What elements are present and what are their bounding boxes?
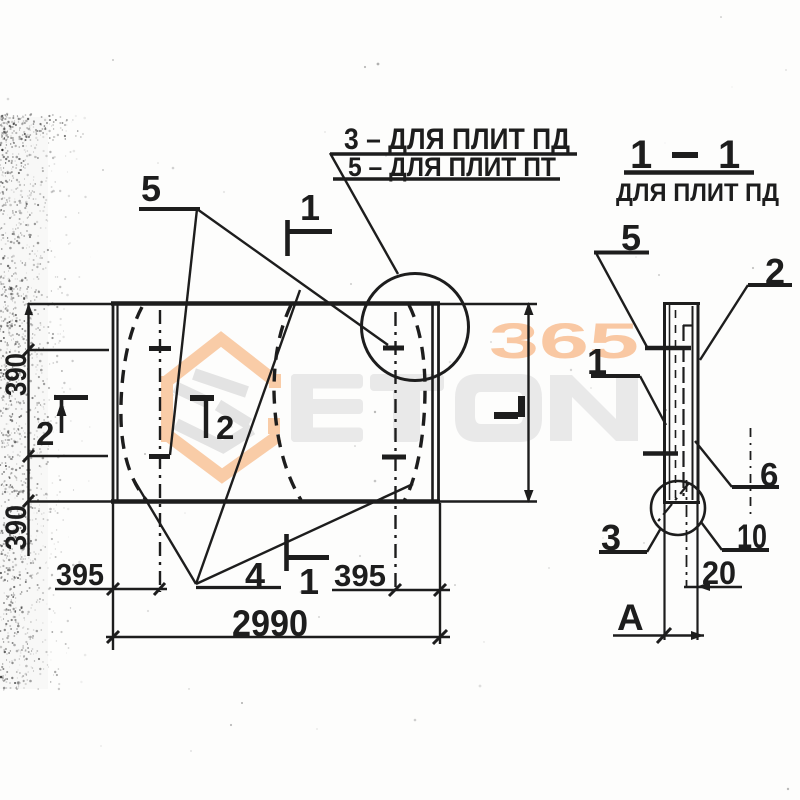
- section label 10 underline: [722, 548, 769, 552]
- section right edge extension down: [696, 504, 698, 640]
- right edge extension below plan: [439, 503, 441, 644]
- watermark logo hexagon chevron top (peach): [166, 339, 276, 382]
- watermark logo gray chevron band 4: [176, 424, 252, 447]
- annotation underline 2: [333, 177, 560, 180]
- section view: inner vertical line: [682, 325, 684, 496]
- section anchor tick lower: [643, 451, 678, 456]
- watermark letter N: [550, 375, 638, 441]
- svg-text:1: 1: [630, 133, 652, 177]
- dimension line 2990: [106, 636, 450, 639]
- svg-text:6: 6: [760, 456, 778, 493]
- section label 6 leader: [695, 441, 732, 487]
- section view: right outer wall: [697, 302, 700, 504]
- watermark logo gray chevron band 2: [175, 387, 207, 402]
- watermark letter O: [455, 374, 542, 442]
- dimension line A: [613, 634, 704, 637]
- svg-text:365: 365: [489, 313, 639, 369]
- section marker 2 left: stem: [60, 400, 64, 433]
- section view: inner top jog: [683, 324, 692, 326]
- svg-text:5 – ДЛЯ ПЛИТ ПТ: 5 – ДЛЯ ПЛИТ ПТ: [348, 152, 556, 182]
- dimension line 395 left: [55, 588, 167, 591]
- left dimension line y456: [28, 455, 108, 457]
- section marker 1 lower: flag bar: [287, 555, 329, 560]
- label 4 leader to middle-left arc: [196, 290, 300, 584]
- plan top edge (plate outline): [111, 301, 440, 306]
- section label 3 underline: [599, 550, 647, 554]
- middle-left dashed arc (PT plate contour): [274, 305, 301, 500]
- watermark letter E: [291, 374, 363, 442]
- watermark logo gray chevron band 3: [218, 405, 249, 424]
- plan bottom edge right extension to L line: [440, 500, 537, 502]
- section marker 2 left: arrowhead: [57, 401, 67, 416]
- section label 2 underline: [748, 283, 792, 287]
- plan left edge inner line: [116, 303, 118, 502]
- section view: right inner wall: [692, 306, 694, 500]
- svg-text:1: 1: [300, 187, 320, 228]
- section marker 2 inner: stem: [204, 398, 208, 438]
- plan right edge inner line: [431, 303, 434, 502]
- watermark logo left side bar (peach): [161, 376, 173, 442]
- svg-text:10: 10: [737, 518, 767, 556]
- L letter (rotated) stem: [518, 396, 525, 417]
- plan bottom edge (plate outline): [111, 499, 440, 504]
- plan top edge right extension to L line: [440, 303, 537, 306]
- svg-text:5: 5: [141, 168, 161, 209]
- left near-edge dashed arc (contour): [121, 307, 147, 501]
- label 5 leader to detail tick: [197, 209, 388, 345]
- section view: bottom cap: [663, 501, 700, 504]
- section label 1 underline: [591, 374, 640, 378]
- dim slash 2990 right: [433, 630, 447, 644]
- label 5 long leader to lower-left tick: [170, 209, 197, 455]
- section label 2 leader: [700, 285, 748, 360]
- svg-text:4: 4: [245, 555, 265, 596]
- dimension line 395 right: [332, 589, 450, 592]
- section label 6 underline: [732, 485, 779, 489]
- svg-text:390: 390: [0, 505, 33, 550]
- svg-text:1: 1: [299, 561, 319, 602]
- label 4 leader to left arc: [134, 480, 196, 584]
- left dimension line y350: [28, 349, 109, 351]
- svg-text:1: 1: [718, 133, 740, 177]
- label 5 underline: [139, 207, 200, 211]
- plan left edge outer line: [112, 302, 115, 503]
- left dimension column vertical line: [27, 303, 29, 556]
- section title dash: [672, 152, 698, 158]
- plan right edge outer line: [437, 302, 440, 503]
- watermark logo gray chevron band 1: [194, 374, 247, 392]
- svg-text:2: 2: [765, 251, 785, 292]
- svg-text:1: 1: [587, 341, 607, 382]
- section label 5 leader: [596, 253, 647, 347]
- dim slash 395R at anchor line: [389, 584, 401, 596]
- label 4 horizontal leader line: [196, 586, 281, 589]
- left edge extension below plan: [112, 503, 114, 650]
- dim slash 2990 left: [107, 631, 119, 643]
- section marker 2 inner: flag bar: [190, 395, 214, 401]
- left anchor centerline (dash-dot): [159, 310, 161, 592]
- L letter (rotated) bar: [494, 412, 518, 419]
- svg-text:390: 390: [0, 353, 33, 396]
- svg-text:2: 2: [216, 409, 234, 446]
- section right dash-dot reference line: [750, 428, 752, 517]
- dim slash 395L at left edge: [107, 583, 119, 595]
- dim slash 395L at anchor line: [154, 583, 165, 595]
- section label 10 leader: [701, 522, 722, 550]
- plan bottom edge left extension: [28, 500, 111, 502]
- section centerline below: [686, 480, 688, 586]
- svg-text:5: 5: [621, 217, 641, 258]
- section marker 1 upper: flag bar: [287, 229, 332, 234]
- section anchor tick upper: [645, 346, 691, 351]
- watermark logo right side dashes (peach): [269, 374, 281, 388]
- middle-right dashed arc (PT plate contour): [404, 305, 425, 501]
- anchor tick upper-left: [149, 346, 171, 351]
- svg-text:20: 20: [702, 555, 736, 591]
- left dim slash y456: [23, 450, 34, 462]
- section label 1 leader: [640, 376, 666, 425]
- section left edge extension down: [663, 504, 665, 640]
- dim A arrow right: [691, 631, 704, 640]
- plan top edge left extension: [28, 303, 111, 306]
- left dim slash y501: [23, 495, 34, 507]
- svg-text:395: 395: [334, 558, 386, 593]
- dim slash 395R at right edge: [434, 584, 446, 596]
- section marker 1 lower: stem: [284, 534, 289, 571]
- anchor tick upper-right: [383, 346, 404, 351]
- anchor tick lower-left: [149, 454, 170, 459]
- left dim arrow top: [25, 303, 34, 315]
- svg-text:3: 3: [601, 517, 621, 558]
- section view: left inner wall: [669, 305, 671, 500]
- label 4 leader to middle-right arc: [196, 484, 413, 584]
- svg-text:2990: 2990: [232, 603, 308, 644]
- section view: top cap: [663, 302, 700, 305]
- dimension line 20: [684, 586, 742, 589]
- annotation underline 1: [330, 152, 577, 155]
- section diagonal dash-dot in circle: [655, 483, 689, 525]
- dim A slash at left edge: [657, 628, 671, 643]
- svg-text:ДЛЯ ПЛИТ ПД: ДЛЯ ПЛИТ ПД: [616, 179, 779, 207]
- L dim arrow top: [524, 302, 534, 315]
- section label 3 leader: [647, 528, 661, 552]
- dim 20 arrow left: [697, 582, 710, 591]
- svg-text:А: А: [617, 597, 644, 638]
- watermark logo bottom V (peach): [166, 434, 278, 476]
- right anchor centerline (dash-dot): [394, 312, 396, 592]
- section view: inner dashed bar line: [675, 310, 677, 498]
- section marker 1 upper: stem: [285, 220, 290, 256]
- L dim arrow bottom: [524, 490, 534, 503]
- watermark letter T: [370, 374, 444, 442]
- anchor tick lower-right: [382, 455, 406, 460]
- svg-text:2: 2: [36, 415, 54, 452]
- section title underline: [624, 170, 754, 174]
- L dimension line right of plan: [527, 303, 529, 502]
- left dim slash y350: [23, 344, 34, 356]
- section marker 2 left: flag bar: [54, 395, 88, 400]
- section label 5 underline: [594, 251, 649, 255]
- section detail circle: [651, 481, 705, 535]
- svg-text:395: 395: [56, 557, 104, 592]
- detail circle on plan: [362, 274, 469, 381]
- section view: left outer wall: [663, 302, 666, 504]
- annotation leader to circle: [330, 153, 398, 274]
